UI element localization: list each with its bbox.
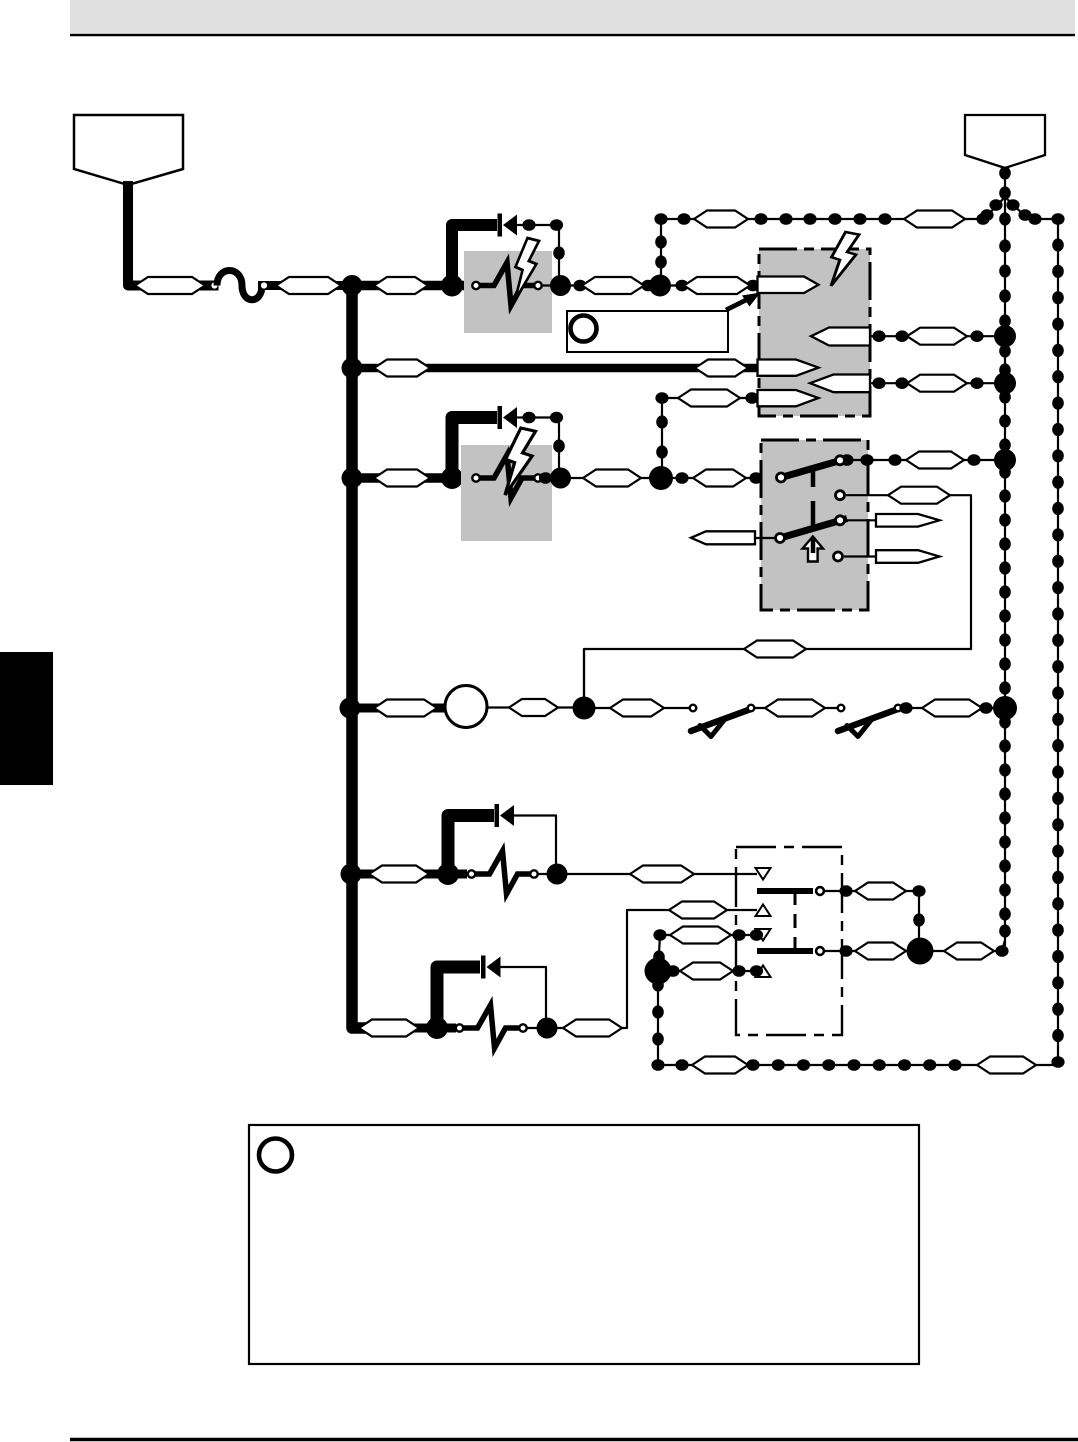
wire node M to switch S2 <box>584 707 689 709</box>
switch S2 (interlock, open) <box>690 705 755 737</box>
node C junction <box>550 275 571 296</box>
node Q junction <box>547 864 568 885</box>
S1 blade 2 <box>780 519 847 539</box>
node U junction <box>645 958 672 985</box>
hexagon label W3 <box>374 277 428 294</box>
wire riser node M <box>583 649 585 708</box>
hexagon label W11 <box>744 641 806 658</box>
wire relay contact2 (beaded) <box>825 943 1002 960</box>
wire row3 to node J <box>560 477 661 479</box>
hexagon label W10 <box>888 487 950 504</box>
node P junction <box>437 863 459 885</box>
wire A1 pin2 to ground bus (beaded) <box>870 328 1000 345</box>
hexagon label W4 <box>582 277 644 294</box>
wire node U to bottom ground run (beaded) <box>652 971 664 1065</box>
S1 contact M2 <box>836 516 845 525</box>
wire S2 to S3 <box>755 707 838 709</box>
circuit breaker CB1 housing <box>464 251 552 333</box>
wire ground to pin C (beaded) <box>653 927 763 972</box>
relay K1 pin D marker <box>756 966 771 978</box>
breaker CB1 terminal R <box>534 282 541 289</box>
node F junction <box>994 325 1016 347</box>
S1 terminal arrow M2 <box>846 514 940 527</box>
wire CB2 out <box>539 472 560 484</box>
relay K1 pin B marker <box>756 905 771 917</box>
callout 1 circled reference <box>571 316 597 342</box>
connector P1 (battery positive lead) <box>74 115 183 185</box>
wire A1 pin4 to ground bus (beaded) <box>870 375 1000 392</box>
hexagon label W9 <box>583 470 641 487</box>
spark symbol at CB1 <box>515 238 539 300</box>
hexagon label W15 <box>765 700 825 717</box>
S1 contact M1 <box>836 491 845 500</box>
wire S1-M1 run <box>584 495 971 700</box>
fusible link F1 <box>217 271 262 300</box>
hexagon label W21 <box>944 943 994 960</box>
wire A1 pin5 feed (beaded) <box>655 390 758 407</box>
callout 2 circled reference <box>259 1139 292 1172</box>
node D junction <box>649 275 671 297</box>
wire CB3 out <box>538 873 557 875</box>
node G junction <box>994 372 1016 394</box>
wire S1-B to ground bus (beaded) <box>840 452 1000 469</box>
module A1 pin 1 (input arrow) <box>758 277 819 294</box>
wire row3 segment (thick) <box>352 473 471 483</box>
diode D2 <box>498 406 518 429</box>
connector P2 (magneto ground lead) <box>965 115 1045 168</box>
terminal hole <box>261 282 267 288</box>
node A junction <box>342 275 363 296</box>
wire D2 to node C2 (beaded) <box>517 412 565 470</box>
hexagon label W18 <box>359 1020 419 1037</box>
S1 terminal arrow S <box>844 550 940 563</box>
wire ground riser to node D (beaded) <box>654 213 667 280</box>
S1 contact S <box>834 552 843 561</box>
callout box 2 <box>249 1125 919 1364</box>
wire P2 drop (beaded) <box>999 166 1011 199</box>
key switch S1 housing <box>761 440 868 610</box>
wire D3 bypass to node Q <box>514 816 556 869</box>
wire node D to module A1 pin1 (beaded) <box>660 280 760 292</box>
callout box 1 <box>567 311 728 352</box>
spark symbol at CB2 <box>505 428 536 495</box>
ignition module A1 housing <box>759 249 870 416</box>
wire ground bus vertical 2 (beaded) <box>1051 219 1064 1068</box>
hexagon label W1 <box>135 277 205 294</box>
wire diode D3 feed (thick L) <box>448 816 494 869</box>
hexagon label W20 <box>669 902 727 919</box>
circuit breaker CB2 element <box>480 455 534 498</box>
node T junction <box>907 938 934 965</box>
wire diode D2 feed (thick L) <box>452 418 497 474</box>
diode D1 <box>498 214 518 237</box>
node B junction <box>441 275 463 297</box>
node H junction <box>342 468 363 489</box>
wire CB1 out <box>542 284 560 286</box>
relay K1 pin C marker <box>756 929 771 941</box>
wire CB4 out <box>527 1027 547 1029</box>
circuit breaker CB3 element <box>476 851 531 894</box>
wire row2 (thick feed) <box>352 364 760 373</box>
diode D4 <box>481 956 501 979</box>
node I junction <box>441 467 463 489</box>
node C2 junction <box>550 468 571 489</box>
wire node J to key switch (beaded) <box>661 470 775 487</box>
node J junction <box>649 466 673 490</box>
relay K1 housing <box>736 847 842 1035</box>
S1 mechanical linkage <box>811 471 816 557</box>
hexagon label W19 <box>563 1020 622 1037</box>
S1 contact common 2 <box>776 534 785 543</box>
hexagon label W17 <box>630 866 694 883</box>
page edge tab <box>0 652 53 785</box>
wire battery feed (thick) <box>128 181 219 286</box>
circuit breaker CB1 element <box>480 263 534 306</box>
terminal hole <box>211 282 217 288</box>
relay K1 contact blade 1 <box>757 887 824 895</box>
diode D3 <box>495 804 515 827</box>
hour meter M1 <box>445 686 487 728</box>
hexagon label W12 <box>374 700 437 717</box>
wire S3 to ground bus (beaded) <box>899 700 1000 717</box>
circuit breaker CB2 housing <box>461 445 552 541</box>
hexagon label W2 <box>276 277 341 294</box>
wire node S to relay pin B <box>547 910 757 1028</box>
page header bar <box>70 0 1075 33</box>
wire diode D4 feed (thick L) <box>437 967 480 1022</box>
wire row6 horizontal (thick) <box>360 1024 456 1033</box>
S1 contact common 1 <box>777 473 786 482</box>
node O junction <box>341 864 362 885</box>
node N junction <box>993 696 1017 720</box>
hexagon label W14 <box>610 700 664 717</box>
switch S3 (interlock, open) <box>838 705 902 737</box>
spark symbol at A1 <box>831 232 859 286</box>
wire top ground run (beaded) <box>661 211 990 228</box>
S1 contact B <box>836 456 845 465</box>
breaker CB2 terminal R <box>534 474 541 481</box>
node S junction <box>537 1018 558 1039</box>
wire ground Y left branch (beaded) <box>980 197 1005 221</box>
wire row4 segment (thick) <box>350 704 448 713</box>
relay K1 contact blade 2 <box>757 947 824 955</box>
wire to junction A (thick) <box>258 281 352 290</box>
S1 blade 1 <box>781 459 846 478</box>
module A1 pin 2 (output arrow) <box>811 328 870 346</box>
wire relay contact1 to node T (beaded) <box>825 883 926 952</box>
module A1 pin 3 (input arrow) <box>758 360 819 376</box>
breaker CB3 terminal R <box>530 870 537 877</box>
S1 key direction arrow <box>803 537 824 562</box>
wire ground bus vertical 1 (beaded) <box>999 197 1011 951</box>
hexagon label W8 <box>374 470 430 487</box>
wire pin5 riser to node J (beaded) <box>656 398 668 478</box>
wire main trunk (battery bus) <box>352 286 371 1029</box>
hexagon label W7 <box>695 360 748 377</box>
wire node U to pin D (beaded) <box>658 963 763 980</box>
breaker CB1 terminal L <box>472 282 479 289</box>
breaker CB3 terminal L <box>468 870 475 877</box>
module A1 pin 5 (input arrow) <box>758 390 819 406</box>
hexagon label W13 <box>509 699 558 716</box>
module A1 pin 4 (output arrow) <box>810 375 870 393</box>
breaker CB2 terminal L <box>472 474 479 481</box>
breaker CB4 terminal L <box>456 1024 463 1031</box>
page footer rule <box>70 1438 1078 1442</box>
wire ground to right bus corner (beaded) <box>1026 213 1065 225</box>
callout 1 pointer arrow <box>726 293 761 311</box>
page header rule <box>70 34 1075 37</box>
hexagon label W6 <box>374 360 430 377</box>
wire D1 to node C (beaded) <box>517 219 565 278</box>
hexagon label W5 <box>684 277 750 294</box>
wire row5 segment (thick) <box>351 870 467 879</box>
node R junction <box>426 1017 448 1039</box>
node L junction <box>340 698 361 719</box>
wire diode D1 feed (thick L) <box>452 225 497 280</box>
wire D4 bypass to node S <box>501 967 547 1022</box>
S1 accessory lead arrow (left) <box>691 531 775 544</box>
node M junction <box>573 697 596 720</box>
wire bottom ground run (beaded) <box>651 1057 1055 1074</box>
corner bead <box>995 945 1008 957</box>
relay K1 pin A marker <box>756 868 771 880</box>
wire row1 segment (thick) <box>352 281 471 291</box>
breaker CB4 terminal R <box>519 1024 526 1031</box>
wire node Q to relay pin A <box>557 873 757 875</box>
node K junction <box>994 449 1016 471</box>
hexagon label W16 <box>369 866 429 883</box>
circuit breaker CB4 element <box>464 1005 520 1048</box>
relay K1 linkage <box>794 891 797 951</box>
wire row1 to node D (beaded) <box>560 280 660 292</box>
wire M1 to node M <box>487 706 584 708</box>
node E junction <box>342 358 363 379</box>
wire ground Y right branch (beaded) <box>1005 197 1032 221</box>
